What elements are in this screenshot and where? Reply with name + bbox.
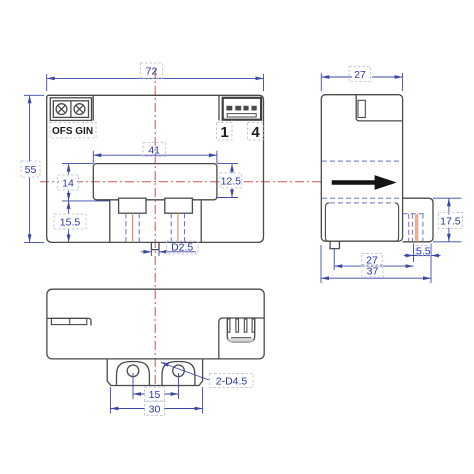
svg-text:14: 14 [62,178,74,190]
svg-text:17.5: 17.5 [440,216,461,228]
svg-text:37: 37 [367,266,379,278]
svg-text:41: 41 [148,145,160,157]
svg-text:30: 30 [149,404,161,416]
svg-text:55: 55 [25,164,37,176]
svg-text:2-D4.5: 2-D4.5 [216,376,248,388]
svg-text:1: 1 [220,124,228,141]
svg-text:OFS GIN: OFS GIN [52,126,93,137]
svg-text:5.5: 5.5 [416,246,431,258]
svg-text:15: 15 [149,389,161,401]
svg-text:72: 72 [146,66,158,78]
svg-text:15.5: 15.5 [60,217,81,229]
svg-text:4: 4 [251,124,260,141]
svg-text:27: 27 [354,69,366,81]
svg-text:D2.5: D2.5 [171,242,193,254]
svg-text:12.5: 12.5 [221,176,242,188]
